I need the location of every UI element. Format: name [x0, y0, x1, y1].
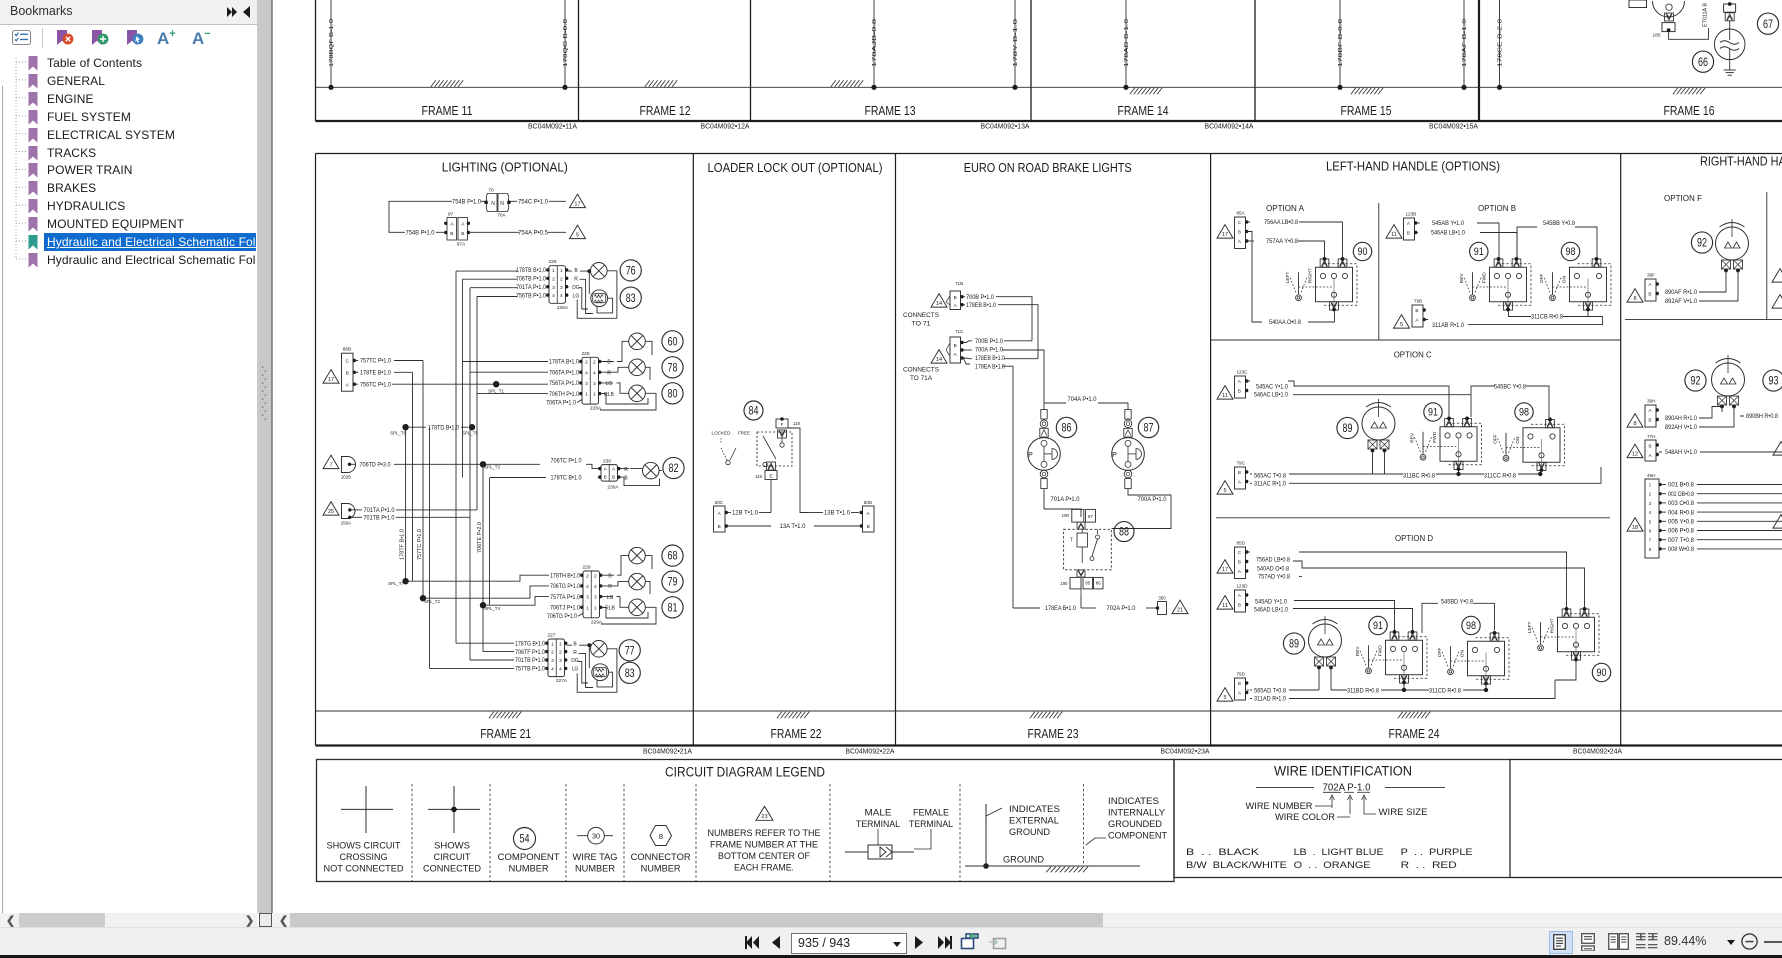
wire loop lamp76/heater83 — [577, 271, 617, 319]
svg-text:002 DB•0.8: 002 DB•0.8 — [1668, 492, 1695, 498]
legend internally grounded — [1084, 784, 1168, 866]
svg-text:706TE P•2.0: 706TE P•2.0 — [477, 522, 483, 553]
wire label 008 W&#8226;0.8 — [1662, 548, 1666, 550]
svg-text:565AC T•0.8: 565AC T•0.8 — [1254, 472, 1287, 479]
svg-text:B/W BLACK/WHITE: B/W BLACK/WHITE — [1186, 860, 1287, 871]
svg-text:OPTION B: OPTION B — [1478, 204, 1516, 213]
wires 39F to motor — [1699, 271, 1738, 302]
svg-text:97: 97 — [448, 212, 454, 218]
svg-text:85A: 85A — [1237, 211, 1246, 216]
svg-text:178AJB-0.8: 178AJB-0.8 — [872, 19, 878, 67]
wire label 700B P-1.0 — [964, 296, 966, 298]
svg-text:701A P•1.0: 701A P•1.0 — [1051, 496, 1081, 503]
svg-text:706TG P•1.0: 706TG P•1.0 — [547, 613, 577, 620]
svg-text:60: 60 — [668, 334, 678, 348]
svg-text:546AB LB•1.0: 546AB LB•1.0 — [1431, 230, 1465, 237]
ground hatch — [1130, 88, 1162, 95]
svg-text:226: 226 — [548, 259, 556, 265]
svg-text:892AF V•1.0: 892AF V•1.0 — [1665, 298, 1697, 305]
svg-text:CONNECTS: CONNECTS — [903, 367, 939, 374]
svg-text:4: 4 — [552, 293, 555, 299]
switch unit option D off/on (98) — [1437, 616, 1509, 685]
svg-text:SPL_T1: SPL_T1 — [488, 389, 504, 394]
connector 97/97A (A/B pins) — [436, 212, 519, 248]
wire label 548AH V-1.0 — [1659, 451, 1662, 453]
switch unit option D fwd/rev (91) — [1355, 616, 1427, 684]
svg-text:78: 78 — [668, 360, 678, 374]
ground hatch — [431, 80, 463, 87]
svg-text:230A: 230A — [607, 485, 619, 491]
svg-text:004 R•0.8: 004 R•0.8 — [1668, 510, 1695, 516]
svg-text:LG: LG — [607, 595, 614, 601]
svg-text:NUMBER: NUMBER — [575, 864, 615, 874]
svg-text:5: 5 — [1223, 695, 1226, 701]
svg-text:N: N — [491, 201, 495, 207]
svg-text:B: B — [461, 231, 464, 237]
svg-text:B: B — [954, 343, 957, 348]
node WIRE SIZE — [1364, 811, 1376, 814]
svg-text:178QG B-0.8: 178QG B-0.8 — [563, 19, 569, 67]
svg-text:700A P•1.0: 700A P•1.0 — [1138, 496, 1168, 503]
svg-text:311CB R•0.8: 311CB R•0.8 — [1531, 314, 1563, 321]
component number 76 — [620, 260, 641, 281]
svg-text:71B: 71B — [955, 281, 963, 286]
svg-text:757AD Y•0.8: 757AD Y•0.8 — [1258, 574, 1291, 581]
component number 92 — [1691, 232, 1712, 253]
svg-text:B . . BLACK: B . . BLACK — [1186, 847, 1260, 858]
svg-text:NUMBER: NUMBER — [509, 864, 549, 874]
wire colour code table — [1186, 847, 1473, 871]
svg-text:B: B — [1238, 603, 1241, 608]
svg-text:545AD Y•1.0: 545AD Y•1.0 — [1255, 598, 1288, 605]
wire 178CE B-2.0 (frame row drop to ground bus) — [1497, 0, 1504, 90]
svg-text:81: 81 — [668, 600, 678, 614]
component number 77 — [619, 640, 640, 661]
connector 227/227A — [545, 633, 568, 685]
svg-text:T: T — [1070, 538, 1073, 544]
component number 78 — [662, 357, 683, 378]
wire label 701TB P-1.0 — [351, 516, 362, 518]
svg-text:B: B — [1648, 418, 1651, 423]
svg-text:LIGHTING (OPTIONAL): LIGHTING (OPTIONAL) — [442, 160, 568, 175]
svg-text:FRAME 12: FRAME 12 — [640, 103, 691, 118]
svg-text:98: 98 — [1466, 620, 1476, 632]
svg-text:B: B — [450, 231, 453, 237]
wire label 003 O&#8226;0.8 — [1662, 502, 1666, 504]
wire label 545AB Y-1.0 — [1416, 222, 1420, 224]
svg-text:2: 2 — [586, 573, 589, 579]
wire label 540AA O-0.8 — [1247, 232, 1262, 323]
wire label 178EB B-1.0 (71C) — [964, 357, 973, 360]
svg-text:O . . ORANGE: O . . ORANGE — [1294, 860, 1371, 871]
svg-text:85D: 85D — [1237, 541, 1246, 546]
wire id arrows — [1330, 795, 1367, 814]
svg-text:REV: REV — [1410, 432, 1416, 443]
svg-text:85: 85 — [1085, 581, 1090, 586]
svg-text:B: B — [1648, 292, 1651, 297]
component number 80 — [662, 383, 683, 404]
svg-text:OPTION A: OPTION A — [1266, 204, 1305, 213]
wire label 001 B&#8226;0.8 — [1662, 484, 1666, 486]
component number 83 — [619, 662, 640, 683]
svg-text:190: 190 — [1062, 513, 1070, 518]
wire 178BF B-0.8 (frame row drop to ground bus) — [1337, 0, 1344, 90]
svg-text:757TA P•1.0: 757TA P•1.0 — [550, 594, 580, 601]
svg-text:OPTION D: OPTION D — [1395, 534, 1433, 543]
svg-text:N: N — [500, 201, 504, 207]
svg-text:FWD: FWD — [1482, 272, 1488, 283]
svg-text:2: 2 — [552, 276, 555, 282]
svg-text:700B P•1.0: 700B P•1.0 — [966, 294, 994, 301]
svg-text:SHOWS: SHOWS — [434, 841, 470, 851]
connector terminal below U (frame16) — [1665, 13, 1674, 21]
svg-text:546AC LB•1.0: 546AC LB•1.0 — [1254, 391, 1288, 398]
svg-text:R: R — [573, 650, 577, 656]
svg-text:008 W•0.8: 008 W•0.8 — [1668, 547, 1695, 553]
svg-text:702A P•1.0: 702A P•1.0 — [1107, 605, 1137, 612]
pressure switch 86 — [1028, 403, 1061, 489]
svg-text:230: 230 — [603, 459, 611, 465]
component number 89 — [1337, 417, 1358, 438]
svg-text:NUMBER: NUMBER — [641, 864, 681, 874]
component number 79 — [662, 571, 683, 592]
svg-text:706TA P•1.0: 706TA P•1.0 — [546, 400, 576, 407]
svg-text:1: 1 — [593, 392, 596, 398]
svg-text:565AD T•0.8: 565AD T•0.8 — [1254, 687, 1287, 694]
svg-text:OFF: OFF — [1437, 648, 1443, 658]
svg-text:4: 4 — [559, 667, 562, 673]
svg-text:NUMBERS REFER TO THE: NUMBERS REFER TO THE — [708, 828, 821, 838]
svg-text:91: 91 — [1428, 407, 1438, 419]
svg-text:FRAME 23: FRAME 23 — [1028, 726, 1079, 741]
svg-text:BC04M092•15A: BC04M092•15A — [1429, 122, 1478, 131]
ground hatch — [1351, 88, 1383, 95]
svg-text:91: 91 — [1474, 246, 1484, 258]
svg-text:77: 77 — [625, 643, 635, 657]
wire to triangle 17 — [549, 200, 566, 202]
wire label 756TC P&#8226;1.0 — [356, 383, 359, 385]
ground symbol below horn — [1724, 60, 1736, 76]
svg-text:754B P•1.0: 754B P•1.0 — [452, 199, 481, 206]
svg-text:4: 4 — [560, 293, 563, 299]
svg-text:E: E — [769, 474, 772, 479]
svg-text:FRAME 14: FRAME 14 — [1118, 103, 1169, 118]
svg-text:2: 2 — [593, 360, 596, 366]
svg-text:2: 2 — [594, 573, 597, 579]
svg-text:INDICATES: INDICATES — [1009, 804, 1060, 814]
component box (cut off, frame 16) — [1629, 0, 1647, 8]
svg-text:17: 17 — [1222, 232, 1228, 238]
connector E 119 (bottom) — [755, 462, 777, 480]
svg-text:4: 4 — [594, 584, 597, 590]
svg-text:B: B — [346, 371, 349, 377]
wire label 178EB B-1.0 — [964, 304, 966, 306]
svg-text:700B P•1.0: 700B P•1.0 — [975, 338, 1003, 345]
splice SPL_T3 — [480, 461, 486, 467]
top border extension to page edge — [1510, 759, 1782, 761]
svg-text:67: 67 — [1763, 17, 1773, 31]
svg-text:86B: 86B — [343, 347, 352, 353]
svg-text:178AD B-1.0: 178AD B-1.0 — [1124, 19, 1130, 67]
svg-text:FRAME 16: FRAME 16 — [1664, 103, 1715, 118]
svg-text:756TA P•1.0: 756TA P•1.0 — [549, 380, 579, 387]
svg-text:GROUNDED: GROUNDED — [1108, 819, 1162, 829]
svg-text:178BQF B-1.0: 178BQF B-1.0 — [329, 19, 335, 67]
connector 50D — [860, 500, 875, 532]
wire id example 702A P-1.0 — [1256, 782, 1445, 793]
svg-text:SPL_T3: SPL_T3 — [484, 464, 500, 469]
ground hatch — [489, 712, 521, 719]
svg-text:SPL_T6: SPL_T6 — [390, 431, 406, 436]
wire horn drop — [1729, 21, 1731, 29]
wire 706TC elbow into 230 — [586, 464, 598, 468]
svg-text:RLB: RLB — [605, 606, 615, 612]
component U-frame16 circle (cut off) — [1653, 1, 1685, 17]
svg-text:701TA P•1.0: 701TA P•1.0 — [364, 507, 396, 514]
svg-text:FRAME 24: FRAME 24 — [1389, 726, 1440, 741]
connector F 119 (top) — [776, 417, 801, 428]
svg-text:3: 3 — [560, 285, 563, 291]
legend cell separators — [411, 784, 413, 881]
svg-text:CONNECTOR: CONNECTOR — [631, 852, 691, 862]
svg-text:890AF R•1.0: 890AF R•1.0 — [1665, 289, 1698, 296]
wire links conn227 rows — [430, 643, 515, 668]
svg-text:3: 3 — [585, 381, 588, 387]
svg-text:90: 90 — [1358, 246, 1368, 258]
svg-text:1: 1 — [585, 392, 588, 398]
svg-text:C: C — [345, 359, 349, 365]
ground hatch — [831, 80, 863, 87]
svg-text:P . . PURPLE: P . . PURPLE — [1401, 847, 1473, 858]
connector 50C — [714, 500, 729, 532]
component number 60 — [662, 331, 683, 352]
frame ref triangle 21 — [1172, 600, 1188, 614]
wire label 006 P&#8226;0.8 — [1662, 530, 1666, 532]
wire label 756AD LB-0.8 — [1247, 551, 1250, 553]
svg-text:79D: 79D — [1237, 672, 1246, 677]
svg-text:SPL_T7: SPL_T7 — [388, 581, 404, 586]
splice SPL_T7 — [402, 578, 408, 584]
wire relay to 50C/50D — [771, 428, 808, 513]
wire links conn228 rows to trunks — [463, 362, 549, 394]
svg-text:B: B — [1415, 308, 1418, 313]
connector 123B (A/B) — [1404, 218, 1415, 240]
legend symbol connector hexagon 8 — [631, 826, 691, 874]
wire label 004 R&#8226;0.8 — [1662, 511, 1666, 513]
svg-text:25: 25 — [328, 509, 334, 515]
connector box 185 — [1662, 23, 1675, 32]
svg-text:185: 185 — [1653, 33, 1662, 38]
svg-text:8: 8 — [1633, 421, 1636, 427]
pressure switch 87 — [1112, 403, 1145, 489]
wires 123B to switches B — [1477, 223, 1517, 258]
svg-text:SPL_T4: SPL_T4 — [484, 606, 500, 611]
svg-text:CONNECTED: CONNECTED — [423, 864, 481, 874]
legend external ground — [965, 804, 1140, 872]
svg-text:003 O•0.8: 003 O•0.8 — [1668, 501, 1695, 507]
svg-text:119: 119 — [793, 421, 801, 426]
svg-text:INDICATES: INDICATES — [1108, 796, 1159, 806]
layout modes — [1549, 931, 1573, 954]
svg-text:92: 92 — [1691, 374, 1701, 388]
svg-text:890BH R•0.8: 890BH R•0.8 — [1746, 413, 1778, 420]
svg-text:FWD: FWD — [1378, 645, 1384, 656]
ground bus line main row — [316, 710, 1782, 712]
svg-text:757AA Y•0.8: 757AA Y•0.8 — [1266, 238, 1299, 245]
svg-text:98: 98 — [1519, 407, 1529, 419]
svg-text:545AB Y•1.0: 545AB Y•1.0 — [1432, 220, 1464, 227]
page nav — [745, 935, 760, 950]
legend male/female terminal — [845, 808, 953, 860]
svg-text:LG: LG — [572, 667, 579, 673]
wire label 002 DB&#8226;0.8 — [1662, 493, 1666, 495]
svg-text:178EA B•1.0: 178EA B•1.0 — [1045, 605, 1076, 612]
frame ref triangle 7 + connector 102B — [323, 455, 356, 479]
svg-text:RIGHT: RIGHT — [1550, 618, 1556, 633]
wire 178Y B-1.0 (frame row drop to ground bus) — [1012, 0, 1019, 90]
connector 49H (8-pin) — [1645, 473, 1662, 558]
svg-text:4: 4 — [586, 584, 589, 590]
svg-text:006 P•0.8: 006 P•0.8 — [1668, 529, 1695, 535]
svg-text:LOADER LOCK OUT (OPTIONAL): LOADER LOCK OUT (OPTIONAL) — [708, 161, 883, 175]
wire label 12B T-1.0 — [728, 512, 731, 514]
wire from 185 to ET011A — [1669, 28, 1709, 39]
svg-text:LEFT: LEFT — [1527, 621, 1533, 633]
svg-text:178EA B•1.0: 178EA B•1.0 — [975, 363, 1005, 370]
svg-text:77H: 77H — [1647, 434, 1655, 439]
svg-text:GROUND: GROUND — [1003, 855, 1044, 865]
svg-text:50D: 50D — [864, 500, 873, 505]
component number 83 — [620, 287, 641, 308]
wire label 178TC B-1.0 — [490, 477, 546, 479]
legend symbol wire tag 30 — [573, 827, 618, 873]
svg-text:545BB Y•0.8: 545BB Y•0.8 — [1543, 220, 1575, 227]
connector 350 — [1156, 596, 1167, 615]
frame ref triangle (partial right edge) — [1772, 269, 1782, 283]
connector 228/228A — [579, 351, 602, 412]
svg-text:178TH B•1.0: 178TH B•1.0 — [550, 572, 580, 579]
horn component (circle with horn symbol) — [1714, 29, 1745, 60]
ground bus line top row — [316, 86, 1782, 88]
svg-text:79: 79 — [668, 575, 678, 589]
wire label 178TD B-1.0 — [409, 426, 426, 428]
svg-text:5: 5 — [1400, 322, 1403, 328]
svg-text:OFF: OFF — [1493, 434, 1499, 444]
svg-text:178EB B•1.0: 178EB B•1.0 — [975, 355, 1005, 362]
wire label 178EA B-1.0 (bottom) — [1013, 607, 1040, 609]
svg-text:P: P — [1112, 452, 1117, 459]
wire links conn226 rows to trunks — [456, 271, 517, 296]
svg-text:178TC B•1.0: 178TC B•1.0 — [551, 475, 582, 482]
svg-text:350: 350 — [1158, 596, 1166, 601]
lamp (circle 82) — [643, 462, 660, 479]
svg-text:756AD LB•0.8: 756AD LB•0.8 — [1256, 556, 1290, 563]
svg-text:76: 76 — [626, 263, 636, 277]
left-hand internal dividers — [1378, 203, 1380, 340]
svg-text:B: B — [954, 295, 957, 300]
svg-text:BC04M092•21A: BC04M092•21A — [643, 747, 692, 756]
svg-text:1: 1 — [559, 641, 562, 647]
svg-text:227A: 227A — [556, 678, 568, 684]
svg-text:1: 1 — [551, 641, 554, 647]
component number 82 — [663, 457, 684, 478]
wire label 13A T-1.0 — [728, 525, 771, 527]
splice SPL_T4 — [480, 602, 486, 608]
connector 39H (A/B) — [1645, 405, 1656, 427]
svg-text:701TB P•1.0: 701TB P•1.0 — [364, 515, 395, 522]
svg-text:R: R — [624, 467, 628, 473]
svg-text:545BD Y•0.8: 545BD Y•0.8 — [1441, 598, 1474, 605]
svg-text:17: 17 — [1222, 567, 1228, 573]
connector 79B (B/A) — [1412, 305, 1423, 327]
svg-text:706TG P•1.0: 706TG P•1.0 — [550, 583, 580, 590]
component number 92 (lower) — [1685, 370, 1706, 391]
connector 229/229A — [580, 565, 603, 626]
svg-text:71C: 71C — [955, 329, 964, 334]
wire label 007 T&#8226;0.8 — [1662, 539, 1666, 541]
frame ref triangle 25 + connector 250A — [323, 502, 355, 526]
wires 71C runs — [1002, 341, 1044, 608]
svg-text:540AA O•0.8: 540AA O•0.8 — [1269, 319, 1301, 326]
svg-text:3: 3 — [551, 658, 554, 664]
svg-text:3: 3 — [559, 658, 562, 664]
svg-text:83: 83 — [625, 666, 635, 680]
svg-text:R . . RED: R . . RED — [1401, 860, 1457, 871]
svg-text:BC04M092•12A: BC04M092•12A — [701, 122, 750, 131]
connector 86B (C/B/A) — [342, 347, 356, 392]
svg-text:91: 91 — [1373, 620, 1383, 632]
svg-text:5: 5 — [576, 233, 579, 239]
svg-text:700A P•1.0: 700A P•1.0 — [975, 346, 1003, 353]
wire label 757AA Y-0.8 — [1247, 240, 1254, 242]
svg-text:546AD LB•1.0: 546AD LB•1.0 — [1254, 606, 1288, 613]
svg-text:INTERNALLY: INTERNALLY — [1108, 808, 1165, 818]
svg-text:R: R — [607, 370, 611, 376]
wires conn228 to lamps — [600, 341, 652, 380]
svg-text:178BF B-0.8: 178BF B-0.8 — [1338, 19, 1344, 67]
svg-text:4: 4 — [593, 370, 596, 376]
svg-text:2: 2 — [585, 360, 588, 366]
wire label 757TC P&#8226;1.0 — [356, 360, 359, 362]
svg-text:70: 70 — [488, 188, 494, 194]
svg-text:TERMINAL: TERMINAL — [909, 819, 953, 829]
svg-text:754B P•1.0: 754B P•1.0 — [406, 230, 435, 237]
frame ref triangle 5 — [570, 225, 586, 239]
svg-text:FRAME 15: FRAME 15 — [1341, 103, 1392, 118]
svg-text:COMPONENT: COMPONENT — [1108, 831, 1167, 841]
svg-text:RIGHT: RIGHT — [1308, 268, 1314, 283]
svg-text:2: 2 — [551, 650, 554, 656]
connector 226/226A — [546, 259, 569, 311]
svg-text:84: 84 — [749, 404, 759, 418]
svg-text:54: 54 — [520, 832, 530, 846]
svg-text:8: 8 — [659, 832, 663, 841]
svg-text:5: 5 — [1223, 488, 1226, 494]
svg-text:TO 71A: TO 71A — [910, 375, 933, 382]
svg-text:B: B — [1238, 470, 1241, 475]
svg-text:CROSSING: CROSSING — [340, 852, 388, 862]
wire 706TD run to splice T3 — [394, 463, 540, 465]
svg-text:EACH FRAME.: EACH FRAME. — [734, 863, 794, 873]
svg-text:LEFT-HAND HANDLE (OPTIONS): LEFT-HAND HANDLE (OPTIONS) — [1326, 159, 1500, 174]
wires conn229 to lamps — [601, 556, 652, 594]
svg-text:311BC R•0.8: 311BC R•0.8 — [1403, 472, 1435, 479]
svg-text:LOCKED: LOCKED — [712, 431, 732, 436]
vertical trunk wires lighting — [405, 427, 407, 581]
motor unit lower (92) — [1712, 355, 1745, 408]
svg-text:ON: ON — [1460, 650, 1466, 658]
wires 85A to switch A — [1298, 222, 1343, 258]
